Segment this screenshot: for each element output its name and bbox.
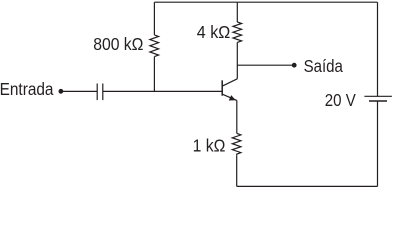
- wire 4k top lead: [236, 2, 238, 22]
- wire right rail upper: [377, 2, 379, 96]
- wire 800k bottom lead: [153, 57, 155, 92]
- wire emitter lead: [236, 100, 238, 133]
- svg-text:Saída: Saída: [304, 57, 344, 76]
- wire input segment: [61, 90, 97, 92]
- resistor R2 4 kOhm zigzag: [233, 22, 242, 42]
- transistor Q1 base bar: [221, 80, 223, 95]
- resistor R1 800 kOhm zigzag: [150, 35, 159, 57]
- node Entrada dot: [59, 89, 64, 94]
- svg-text:Entrada: Entrada: [0, 80, 54, 99]
- wire collector lead: [236, 42, 238, 78]
- transistor Q1 collector diagonal: [223, 79, 238, 86]
- battery V1 long plate: [364, 95, 392, 97]
- wire 1k bottom lead: [236, 156, 238, 187]
- wire base: [103, 90, 222, 92]
- wire 800k top lead: [153, 2, 155, 35]
- transistor Q1 emitter arrowhead: [229, 95, 236, 100]
- svg-text:1 kΩ: 1 kΩ: [193, 136, 226, 156]
- wire right rail lower: [377, 101, 379, 186]
- svg-text:800 kΩ: 800 kΩ: [93, 34, 143, 54]
- capacitor C1 left plate: [96, 84, 98, 101]
- wire Saida branch: [237, 64, 292, 66]
- wire top rail: [154, 1, 377, 3]
- node Saida dot: [292, 63, 297, 68]
- capacitor C1 right plate: [102, 84, 104, 101]
- battery V1 short plate: [369, 100, 387, 102]
- svg-text:4 kΩ: 4 kΩ: [197, 22, 230, 42]
- transistor Q1 emitter diagonal: [223, 94, 237, 100]
- wire bottom rail: [237, 185, 378, 187]
- svg-text:20 V: 20 V: [325, 91, 356, 110]
- resistor R3 1 kOhm zigzag: [232, 133, 241, 156]
